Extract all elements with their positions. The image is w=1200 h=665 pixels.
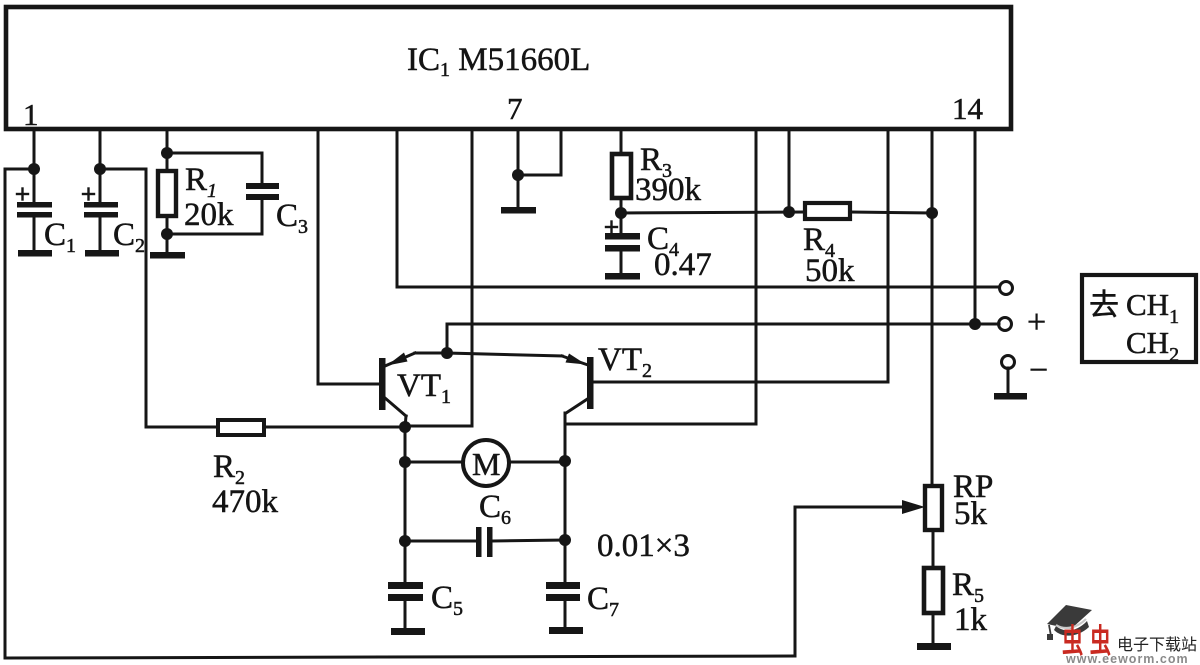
wiper arrowhead RP	[902, 500, 925, 514]
capacitor C2	[83, 169, 118, 250]
wire pin1 drop	[33, 129, 36, 169]
resistor R5 body	[924, 568, 943, 613]
node R1 top	[161, 147, 173, 159]
resistor R4 body	[805, 203, 850, 219]
wire VT1 collector to motor	[404, 427, 407, 541]
svg-text:14: 14	[952, 91, 984, 126]
node C1 top	[28, 163, 40, 175]
capacitor C3	[246, 183, 279, 200]
svg-text:IC1 M51660L: IC1 M51660L	[407, 42, 590, 81]
wire C3 bottom to R1 bottom	[167, 200, 262, 234]
terminal 1 circle	[1000, 282, 1013, 295]
node motor right	[559, 455, 571, 467]
wire R5 bottom lead	[932, 613, 935, 643]
resistor R3 body	[612, 154, 631, 198]
transistor VT2	[447, 353, 594, 461]
wire pin5 drop to terminal 1	[397, 129, 999, 287]
node plus wire	[969, 318, 981, 330]
wire R3 node to R4	[621, 212, 805, 213]
node VT1 collector	[399, 421, 411, 433]
wire R1 parallel jog to C3	[167, 153, 262, 183]
svg-text:5k: 5k	[954, 496, 988, 532]
capacitor C6	[476, 527, 493, 557]
logo cap stripe	[1056, 619, 1086, 628]
wire pin6 drop to VT1 collector	[406, 129, 472, 426]
svg-text:−: −	[1029, 352, 1048, 389]
node C6 left	[399, 535, 411, 547]
wire pin13 drop to RP	[931, 129, 934, 486]
wire C6 left lead	[405, 540, 477, 543]
svg-text:390k: 390k	[635, 172, 702, 208]
logo cap board	[1047, 605, 1092, 629]
wire minus terminal stem	[1007, 368, 1010, 394]
wire C2 to R2	[100, 169, 218, 427]
node R3/C4	[615, 207, 627, 219]
logo tassel	[1049, 625, 1051, 636]
svg-text:7: 7	[507, 91, 523, 126]
svg-text:1k: 1k	[954, 602, 988, 638]
svg-text:M: M	[472, 446, 500, 482]
potentiometer RP body	[925, 486, 942, 530]
svg-text:www.eeworm.com: www.eeworm.com	[1065, 652, 1189, 665]
wire bottom rail	[5, 656, 795, 658]
wire pin7 drop	[517, 129, 520, 207]
ground R1	[150, 252, 185, 259]
motor M body	[463, 440, 509, 486]
svg-text:0.01×3: 0.01×3	[597, 528, 690, 564]
resistor R1 body	[158, 171, 176, 216]
capacitor C1	[17, 169, 52, 250]
wire pin1 to left rail	[5, 168, 34, 171]
svg-text:50k: 50k	[805, 253, 855, 289]
wire pin12 drop to VT2 base	[594, 129, 888, 382]
wire R3 bottom lead	[620, 198, 623, 233]
ground C2	[85, 250, 119, 257]
wire C6 right lead	[493, 540, 565, 541]
wire pin3 drop	[166, 129, 169, 153]
wire RP wiper arrow line	[795, 506, 914, 509]
resistor R2 body	[218, 420, 264, 435]
capacitor C7	[546, 540, 580, 627]
wire pin10 drop to VT2 collector rail	[566, 129, 756, 424]
node motor left	[399, 456, 411, 468]
ground pin7	[501, 207, 536, 214]
ground C1	[18, 250, 52, 257]
wire emitter node to plus rail	[447, 324, 975, 353]
svg-text:20k: 20k	[184, 197, 234, 233]
wire pin8 jog to pin7 node	[518, 129, 561, 175]
wire R4 to node	[850, 212, 932, 213]
wire pin9 drop	[620, 129, 623, 154]
node C6 right	[559, 534, 571, 546]
svg-text:1: 1	[23, 97, 39, 132]
wire left rail	[4, 169, 7, 658]
wire motor right lead	[509, 461, 565, 464]
svg-text:+: +	[1027, 304, 1046, 341]
svg-text:470k: 470k	[212, 484, 279, 520]
capacitor C4	[605, 222, 640, 274]
wire riser to RP wiper	[794, 507, 797, 656]
wire motor left lead	[405, 461, 463, 464]
wire RP to R5	[932, 530, 935, 568]
transistor VT1	[379, 353, 447, 428]
ground C5	[391, 628, 425, 635]
wire motor right down	[564, 461, 567, 540]
wire pin11 drop	[788, 129, 791, 212]
wire R2 to VT1 collector node	[264, 426, 405, 429]
node VT1 emitter	[441, 347, 453, 359]
wire pin14 drop to plus terminal	[975, 129, 999, 324]
capacitor C5	[388, 541, 423, 628]
svg-text:去: 去	[1089, 289, 1119, 322]
wire pin4 drop to VT1 base	[318, 129, 379, 384]
wire pin2 drop	[99, 129, 102, 169]
terminal plus circle	[999, 318, 1012, 331]
watermark logo eeworm	[1047, 605, 1197, 665]
node R4 left	[783, 206, 795, 218]
svg-text:0.47: 0.47	[654, 247, 712, 283]
logo cap band	[1054, 621, 1089, 636]
wire R1 leads	[166, 153, 169, 171]
node R1 bottom	[161, 228, 173, 240]
IC U1 body M51660L	[6, 7, 1011, 129]
node C2 top	[94, 163, 106, 175]
node pin7	[512, 169, 524, 181]
box CH1 CH2	[1082, 275, 1196, 362]
terminal minus circle	[1002, 356, 1015, 369]
ground minus terminal	[994, 393, 1027, 400]
ground C7	[549, 627, 583, 634]
node R4 right	[926, 207, 938, 219]
ground R5	[917, 643, 951, 650]
ground C4	[605, 273, 640, 280]
